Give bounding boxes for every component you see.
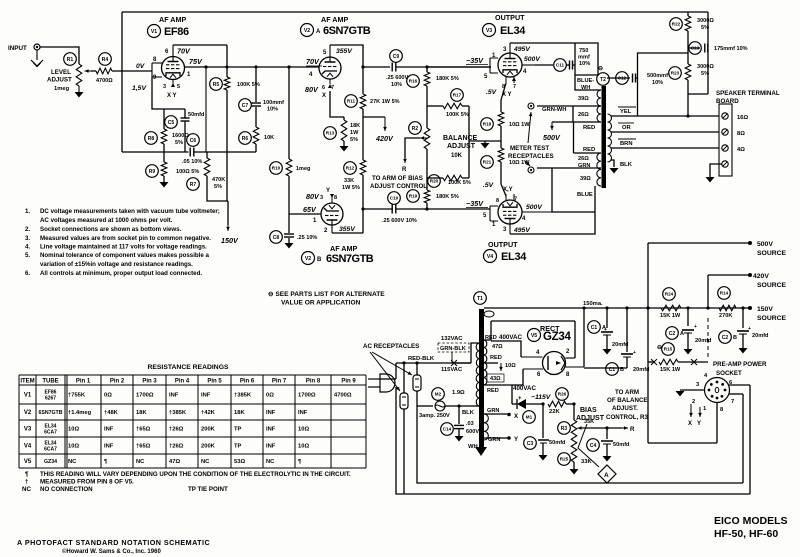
- svg-text:OR: OR: [622, 125, 632, 131]
- wire T2 lower screen tap: [537, 167, 601, 169]
- svg-text:Pin 5: Pin 5: [207, 379, 222, 385]
- svg-text:LEVEL: LEVEL: [51, 69, 71, 76]
- svg-text:3000Ω: 3000Ω: [697, 18, 714, 24]
- wire plug upper prong to line: [395, 363, 397, 379]
- svg-text:B: B: [733, 335, 737, 341]
- svg-text:50mfd: 50mfd: [188, 112, 205, 118]
- svg-text:⊖: ⊖: [598, 66, 603, 72]
- svg-text:Pin 7: Pin 7: [272, 379, 287, 385]
- svg-text:RED: RED: [583, 125, 595, 131]
- socket heater arrows X Y: [690, 404, 692, 417]
- svg-text:65V: 65V: [303, 205, 317, 214]
- svg-text:V2: V2: [305, 256, 311, 262]
- svg-text:7: 7: [731, 399, 734, 405]
- svg-text:6CA7: 6CA7: [44, 430, 57, 436]
- T2 secondary winding: [608, 114, 612, 162]
- svg-text:C1: C1: [591, 325, 598, 331]
- svg-text:NC: NC: [68, 459, 77, 465]
- resistor R15 15K 1W: [648, 361, 655, 363]
- capacitor C10 .25 600V 10%: [391, 205, 393, 214]
- terminal 16 ohm: [722, 113, 728, 119]
- svg-text:Line voltage maintained at 117: Line voltage maintained at 117 volts for…: [40, 244, 207, 251]
- svg-text:C4: C4: [590, 443, 597, 449]
- svg-text:10Ω: 10Ω: [298, 427, 309, 433]
- svg-text:100K 5%: 100K 5%: [448, 180, 471, 186]
- svg-text:75V: 75V: [189, 57, 203, 66]
- wire grid line V4 -35V: [427, 208, 490, 210]
- svg-text:+: +: [518, 396, 522, 402]
- wire 420V feed arrow: [363, 116, 385, 118]
- V4 grid bracket pins 1 5: [489, 206, 491, 221]
- svg-text:.25 10%: .25 10%: [297, 235, 317, 241]
- svg-text:150ma.: 150ma.: [583, 301, 603, 307]
- svg-text:EL34: EL34: [501, 251, 527, 263]
- svg-text:ADJUST: ADJUST: [47, 77, 72, 84]
- capacitor C9 .25 600V 10%: [363, 66, 390, 68]
- svg-text:C2: C2: [669, 331, 676, 337]
- svg-text:METER TEST: METER TEST: [510, 145, 549, 152]
- svg-text:R18: R18: [483, 122, 492, 127]
- svg-text:AF AMP: AF AMP: [330, 244, 357, 253]
- T2 primary lower winding: [597, 153, 601, 186]
- wire AC line RED-BLK: [396, 362, 452, 364]
- svg-text:SOURCE: SOURCE: [757, 315, 787, 322]
- V3 cathode pins 8 7: [505, 76, 507, 83]
- svg-text:TP: TP: [234, 427, 242, 433]
- svg-text:.25 600V 10%: .25 600V 10%: [382, 218, 417, 224]
- svg-text:10Ω: 10Ω: [68, 427, 79, 433]
- svg-text:5%: 5%: [701, 25, 709, 31]
- V4 plate lead 495V pin 3: [509, 224, 511, 234]
- T1 primary winding: [476, 343, 479, 406]
- svg-text:R14: R14: [720, 291, 729, 296]
- heater lead X: [484, 413, 508, 415]
- svg-text:GZ34: GZ34: [543, 331, 571, 343]
- svg-text:R10: R10: [272, 166, 281, 171]
- svg-text:4700Ω: 4700Ω: [334, 393, 352, 399]
- svg-text:A: A: [680, 331, 684, 337]
- svg-text:132VAC: 132VAC: [441, 336, 463, 342]
- T1 HV center tap 10ohm: [484, 362, 498, 364]
- svg-text:RESISTANCE READINGS: RESISTANCE READINGS: [147, 364, 229, 371]
- V4 cathode pins 8 7: [505, 194, 507, 200]
- svg-text:1.9Ω: 1.9Ω: [452, 390, 465, 396]
- svg-text:C13: C13: [691, 46, 700, 51]
- terminal 4 ohm: [722, 145, 728, 151]
- V1 pin 6 screen lead 70V: [172, 45, 174, 57]
- svg-text:Pin 4: Pin 4: [175, 379, 190, 385]
- svg-text:VALUE OR APPLICATION: VALUE OR APPLICATION: [281, 300, 361, 307]
- svg-text:7: 7: [514, 197, 517, 203]
- svg-text:10Ω: 10Ω: [298, 444, 309, 450]
- svg-text:R6: R6: [242, 136, 249, 142]
- svg-text:R17: R17: [453, 93, 462, 98]
- svg-text:3amp. 250V: 3amp. 250V: [419, 413, 450, 419]
- svg-text:.05 10%: .05 10%: [182, 159, 202, 165]
- svg-text:C7: C7: [242, 103, 249, 109]
- svg-text:6SN7GTB: 6SN7GTB: [39, 410, 63, 416]
- svg-text:INF: INF: [104, 444, 114, 450]
- svg-text:26Ω: 26Ω: [578, 112, 589, 118]
- svg-text:BOARD: BOARD: [716, 98, 739, 105]
- svg-text:6.: 6.: [25, 270, 30, 277]
- svg-text:10K: 10K: [451, 153, 463, 159]
- wire outer return loop: [396, 387, 750, 494]
- svg-text:†385K: †385K: [234, 393, 252, 399]
- svg-text:10%: 10%: [391, 82, 402, 88]
- svg-text:5: 5: [177, 84, 180, 90]
- svg-text:180K 5%: 180K 5%: [436, 194, 459, 200]
- tube V3 EL34 OUTPUT: [498, 53, 522, 77]
- svg-text:M1: M1: [526, 415, 533, 420]
- wire left edge of stage box: [121, 12, 123, 152]
- svg-text:Y: Y: [697, 421, 701, 427]
- wire T2 primary center tap RED: [552, 121, 601, 123]
- svg-text:INF: INF: [201, 393, 211, 399]
- wire input to level pot: [40, 47, 79, 64]
- resistor R24 15K 1W: [661, 305, 681, 311]
- svg-text:NO CONNECTION: NO CONNECTION: [40, 486, 93, 493]
- svg-text:⊖: ⊖: [657, 345, 662, 351]
- capacitor C2B 20mfd: [741, 306, 744, 309]
- AC receptacle 2: [400, 393, 408, 409]
- svg-text:0V: 0V: [136, 63, 146, 70]
- svg-text:−35V: −35V: [466, 199, 484, 208]
- V3 screen lead 500V pin 4: [522, 64, 535, 66]
- resistor R6 10K: [253, 127, 259, 144]
- svg-text:R22: R22: [672, 22, 681, 27]
- svg-text:ADJUST.: ADJUST.: [612, 405, 638, 412]
- svg-text:4700Ω: 4700Ω: [96, 78, 113, 84]
- svg-text:Pin 9: Pin 9: [341, 379, 356, 385]
- svg-text:†385K: †385K: [169, 410, 187, 416]
- svg-text:+: +: [748, 326, 751, 332]
- svg-text:†755K: †755K: [68, 393, 86, 399]
- svg-text:+: +: [633, 350, 636, 356]
- svg-text:R3: R3: [561, 426, 568, 432]
- svg-text:50mfd: 50mfd: [549, 440, 566, 446]
- svg-text:750: 750: [579, 48, 588, 54]
- svg-text:INF: INF: [104, 427, 114, 433]
- svg-text:THIS READING WILL VARY DEPENDI: THIS READING WILL VARY DEPENDING UPON TH…: [40, 471, 351, 478]
- svg-text:R1: R1: [67, 57, 74, 63]
- svg-text:500V: 500V: [543, 133, 561, 142]
- svg-text:OF BALANCE: OF BALANCE: [607, 397, 648, 404]
- wire V2B plate to R12 column: [332, 232, 363, 234]
- svg-text:Y: Y: [326, 188, 330, 194]
- svg-text:35K: 35K: [584, 419, 594, 425]
- svg-text:GRN: GRN: [488, 437, 500, 443]
- svg-text:18K: 18K: [350, 123, 360, 129]
- svg-text:AF AMP: AF AMP: [159, 15, 186, 24]
- svg-text:150V: 150V: [757, 306, 773, 313]
- svg-text:C11: C11: [556, 63, 565, 68]
- svg-text:T2: T2: [600, 77, 606, 83]
- wire feedback to 16ohm tap: [687, 94, 689, 116]
- svg-text:3: 3: [163, 84, 166, 90]
- svg-text:SPEAKER TERMINAL: SPEAKER TERMINAL: [716, 90, 780, 97]
- svg-text:V3: V3: [24, 427, 32, 433]
- capacitor C6 .05 10%: [189, 148, 191, 157]
- svg-text:R: R: [630, 426, 635, 433]
- ground below input jack: [36, 50, 38, 60]
- wire V2A cathode to R13: [330, 91, 344, 117]
- svg-text:NC: NC: [201, 459, 210, 465]
- svg-text:10%: 10%: [579, 61, 590, 67]
- svg-text:5%: 5%: [175, 140, 183, 146]
- wire 500V source: [646, 306, 649, 309]
- resistor R21 10ohm 1W: [500, 141, 502, 148]
- svg-text:©Howard W. Sams & Co., Inc. 19: ©Howard W. Sams & Co., Inc. 1960: [62, 548, 161, 555]
- wire V4 cathode to R21: [501, 184, 506, 196]
- svg-text:†65Ω: †65Ω: [136, 427, 151, 433]
- svg-text:495V: 495V: [513, 227, 531, 234]
- svg-text:V4: V4: [487, 254, 493, 260]
- svg-text:10Ω 1W: 10Ω 1W: [509, 122, 530, 128]
- svg-text:SOURCE: SOURCE: [757, 250, 787, 257]
- input jack J1: [34, 44, 40, 50]
- resistor R12 33K 1W 5%: [362, 109, 364, 160]
- bias adjust potentiometer R3: [573, 404, 575, 420]
- T1 HV secondary top lead RED 400VAC: [484, 321, 491, 340]
- svg-text:600V: 600V: [466, 429, 479, 435]
- svg-text:70V: 70V: [177, 47, 191, 56]
- arrow to upper receptacle: [528, 112, 531, 143]
- V4 screen lead 500V pin 4: [522, 211, 552, 213]
- svg-text:0Ω: 0Ω: [104, 393, 112, 399]
- svg-text:15K 1W: 15K 1W: [660, 367, 681, 373]
- svg-text:R25: R25: [560, 457, 569, 462]
- svg-text:A: A: [316, 29, 321, 35]
- V1 cathode pins 3 4 5: [172, 80, 174, 85]
- wire V1 plate to V2A grid: [185, 66, 319, 68]
- T2 secondary common BLK to ground: [611, 160, 614, 167]
- svg-text:C12: C12: [618, 76, 627, 81]
- svg-text:2.: 2.: [25, 226, 30, 233]
- svg-text:8: 8: [334, 195, 337, 201]
- wire speaker line 8 ohm OR: [611, 131, 719, 133]
- svg-text:.5V: .5V: [486, 89, 498, 96]
- svg-text:RED: RED: [490, 355, 502, 361]
- svg-text:53Ω: 53Ω: [234, 459, 245, 465]
- resistor R10 1meg: [288, 67, 290, 159]
- V1 plate lead 75V pin 1: [185, 66, 207, 68]
- capacitor C11 750mmf value box: [575, 43, 598, 75]
- capacitor C12 500mmf 10%: [607, 77, 630, 79]
- svg-text:C10: C10: [390, 196, 399, 201]
- wire V1 screen to R5 column: [173, 44, 227, 46]
- wire coupling to C10: [363, 208, 392, 210]
- svg-text:ADJUST: ADJUST: [447, 143, 476, 150]
- svg-text:C2: C2: [722, 335, 729, 341]
- svg-text:V5: V5: [24, 459, 32, 465]
- svg-text:V2: V2: [304, 28, 310, 34]
- svg-text:4.: 4.: [25, 244, 30, 251]
- svg-text:7: 7: [513, 84, 516, 90]
- ground below R13: [340, 146, 349, 152]
- svg-text:R15: R15: [664, 347, 673, 352]
- svg-text:OUTPUT: OUTPUT: [488, 240, 518, 249]
- svg-text:100mmf: 100mmf: [263, 100, 284, 106]
- svg-text:INF: INF: [266, 444, 276, 450]
- svg-text:T1: T1: [477, 296, 483, 302]
- svg-text:22K: 22K: [549, 409, 560, 415]
- svg-text:1W: 1W: [350, 130, 359, 136]
- svg-text:Pin 2: Pin 2: [110, 379, 125, 385]
- capacitor C7 100mmf 10%: [255, 67, 257, 102]
- balance adjust potentiometer R2 10K: [424, 128, 430, 149]
- svg-text:R23: R23: [671, 71, 680, 76]
- wire T1 primary top: [452, 362, 471, 364]
- svg-text:355V: 355V: [339, 226, 356, 233]
- dashed wire 420V to socket: [707, 318, 709, 360]
- svg-text:RECEPTACLES: RECEPTACLES: [508, 153, 554, 160]
- svg-text:Pin 3: Pin 3: [142, 379, 157, 385]
- svg-text:A: A: [602, 325, 606, 331]
- rectifier M1 -115V: [512, 403, 517, 405]
- svg-text:20mfd: 20mfd: [695, 338, 712, 344]
- svg-text:70V: 70V: [306, 57, 320, 66]
- svg-text:8Ω: 8Ω: [737, 131, 745, 137]
- svg-text:C6: C6: [190, 138, 197, 144]
- wire pot wiper to R4: [91, 70, 96, 72]
- AC receptacle 1: [413, 375, 421, 391]
- svg-text:.03: .03: [466, 421, 474, 427]
- wire V5 cathode to B+ rail: [583, 308, 585, 367]
- capacitor C1A 20mfd: [605, 306, 608, 309]
- V1 pin 8/9 grid bracket: [151, 63, 153, 77]
- capacitor C4 50mfd: [605, 426, 608, 429]
- resistor R17 100K 5%: [427, 105, 443, 107]
- capacitor C13 175mmf 10%: [688, 47, 700, 49]
- svg-text:ITEM: ITEM: [20, 379, 34, 385]
- svg-text:INF: INF: [298, 410, 308, 416]
- svg-text:YEL: YEL: [620, 109, 632, 115]
- svg-text:GZ34: GZ34: [44, 459, 57, 465]
- svg-text:INPUT: INPUT: [8, 45, 27, 52]
- svg-text:5.: 5.: [25, 252, 30, 259]
- svg-text:†: †: [25, 479, 29, 486]
- resistor R13 18K 1W 5%: [341, 120, 347, 141]
- svg-text:400VAC: 400VAC: [513, 385, 536, 392]
- ground from common terminal: [710, 164, 722, 177]
- svg-text:100K 5%: 100K 5%: [446, 112, 469, 118]
- wire V3 cathode to R18: [501, 83, 506, 100]
- pre-amp power socket: [705, 378, 730, 403]
- svg-text:R21: R21: [483, 160, 492, 165]
- svg-text:INF: INF: [266, 427, 276, 433]
- svg-text:MEASURED FROM PIN 8 OF V5.: MEASURED FROM PIN 8 OF V5.: [40, 479, 134, 486]
- capacitor C3 50mfd: [542, 404, 544, 438]
- resistor R16 180K 5%: [426, 67, 428, 72]
- svg-text:SOURCE: SOURCE: [757, 282, 787, 289]
- svg-text:R8: R8: [148, 136, 155, 142]
- svg-text:BLK: BLK: [620, 162, 633, 168]
- svg-text:0Ω: 0Ω: [266, 393, 274, 399]
- wire speaker line 4 ohm BRN: [611, 147, 719, 149]
- svg-text:355V: 355V: [336, 48, 353, 55]
- resistor R22 3000ohm 5%: [687, 12, 689, 16]
- resistor R14 270K: [719, 305, 736, 311]
- resistor R26 22K: [541, 402, 544, 405]
- svg-text:500mmf: 500mmf: [647, 73, 668, 79]
- svg-text:RED: RED: [583, 147, 595, 153]
- svg-text:RED-BLK: RED-BLK: [408, 356, 435, 362]
- transformer T1 core: [479, 309, 484, 452]
- tube V2 section A 6SN7GTB AF AMP: [319, 57, 341, 79]
- svg-text:400VAC: 400VAC: [499, 334, 522, 341]
- svg-text:1,5V: 1,5V: [132, 85, 147, 92]
- svg-text:500V: 500V: [526, 204, 543, 211]
- tube V5 GZ34 RECT: [543, 352, 566, 375]
- wire T2 primary top lead: [575, 43, 601, 90]
- svg-text:5%: 5%: [350, 137, 358, 143]
- svg-text:200K: 200K: [201, 427, 216, 433]
- svg-text:6SN7GTB: 6SN7GTB: [323, 25, 371, 37]
- wire receptacle 1 to fuse line: [416, 391, 418, 406]
- svg-text:6SN7GTB: 6SN7GTB: [326, 253, 374, 265]
- svg-text:INF: INF: [169, 393, 179, 399]
- fuse M2 3amp 250V: [417, 405, 433, 407]
- svg-text:1.: 1.: [25, 208, 30, 215]
- svg-text:18K: 18K: [136, 410, 147, 416]
- svg-text:C9: C9: [393, 54, 400, 60]
- wire B+ rail 150ma: [484, 307, 750, 309]
- svg-text:10%: 10%: [267, 107, 278, 113]
- svg-text:INF: INF: [266, 410, 276, 416]
- wire 150V source: [748, 306, 752, 310]
- svg-text:BLUE-: BLUE-: [577, 78, 594, 84]
- svg-text:.5V: .5V: [483, 182, 495, 189]
- ground below R9: [160, 182, 169, 188]
- svg-text:50mfd: 50mfd: [613, 442, 630, 448]
- terminal 8 ohm: [722, 129, 728, 135]
- terminal common: [722, 161, 728, 167]
- svg-text:500V: 500V: [524, 56, 541, 63]
- tube V4 EL34 OUTPUT: [498, 200, 522, 224]
- svg-text:A: A: [604, 472, 609, 479]
- svg-text:R11: R11: [347, 99, 356, 104]
- svg-text:X,Y: X,Y: [503, 187, 513, 193]
- capacitor C14 .03 600V: [457, 404, 460, 407]
- svg-text:Socket connections are shown a: Socket connections are shown as bottom v…: [40, 226, 182, 233]
- svg-text:OUTPUT: OUTPUT: [495, 13, 525, 22]
- svg-text:47Ω: 47Ω: [492, 344, 503, 350]
- svg-text:.25 600V: .25 600V: [386, 75, 409, 81]
- svg-text:B: B: [317, 257, 322, 263]
- svg-text:variation of ±15%in voltage an: variation of ±15%in voltage and resistan…: [40, 261, 193, 268]
- svg-text:†26Ω: †26Ω: [169, 444, 184, 450]
- wire balance wiper to bias arm: [405, 138, 420, 158]
- capacitor C2A 20mfd: [686, 306, 689, 309]
- wire V1 plate drop: [205, 67, 207, 152]
- svg-text:C5: C5: [168, 120, 175, 126]
- svg-text:RED: RED: [487, 388, 499, 394]
- wire R4 to V1 grid: [112, 70, 152, 72]
- svg-text:R4: R4: [102, 57, 109, 63]
- wire cathode junction to ground: [469, 140, 501, 142]
- svg-text:Nominal tolerance of component: Nominal tolerance of component values ma…: [40, 252, 210, 259]
- meter test receptacle upper: [528, 103, 534, 109]
- wire V3 plate to T2 top: [510, 42, 575, 44]
- svg-text:R20: R20: [430, 179, 439, 184]
- svg-text:Measured values are from socke: Measured values are from socket pin to c…: [40, 235, 211, 242]
- svg-text:420V: 420V: [375, 134, 394, 143]
- svg-text:GRN-BLK: GRN-BLK: [440, 346, 466, 352]
- svg-text:1700Ω: 1700Ω: [136, 393, 154, 399]
- svg-text:BIAS: BIAS: [580, 407, 597, 414]
- resistor R9 100ohm 5%: [163, 152, 165, 162]
